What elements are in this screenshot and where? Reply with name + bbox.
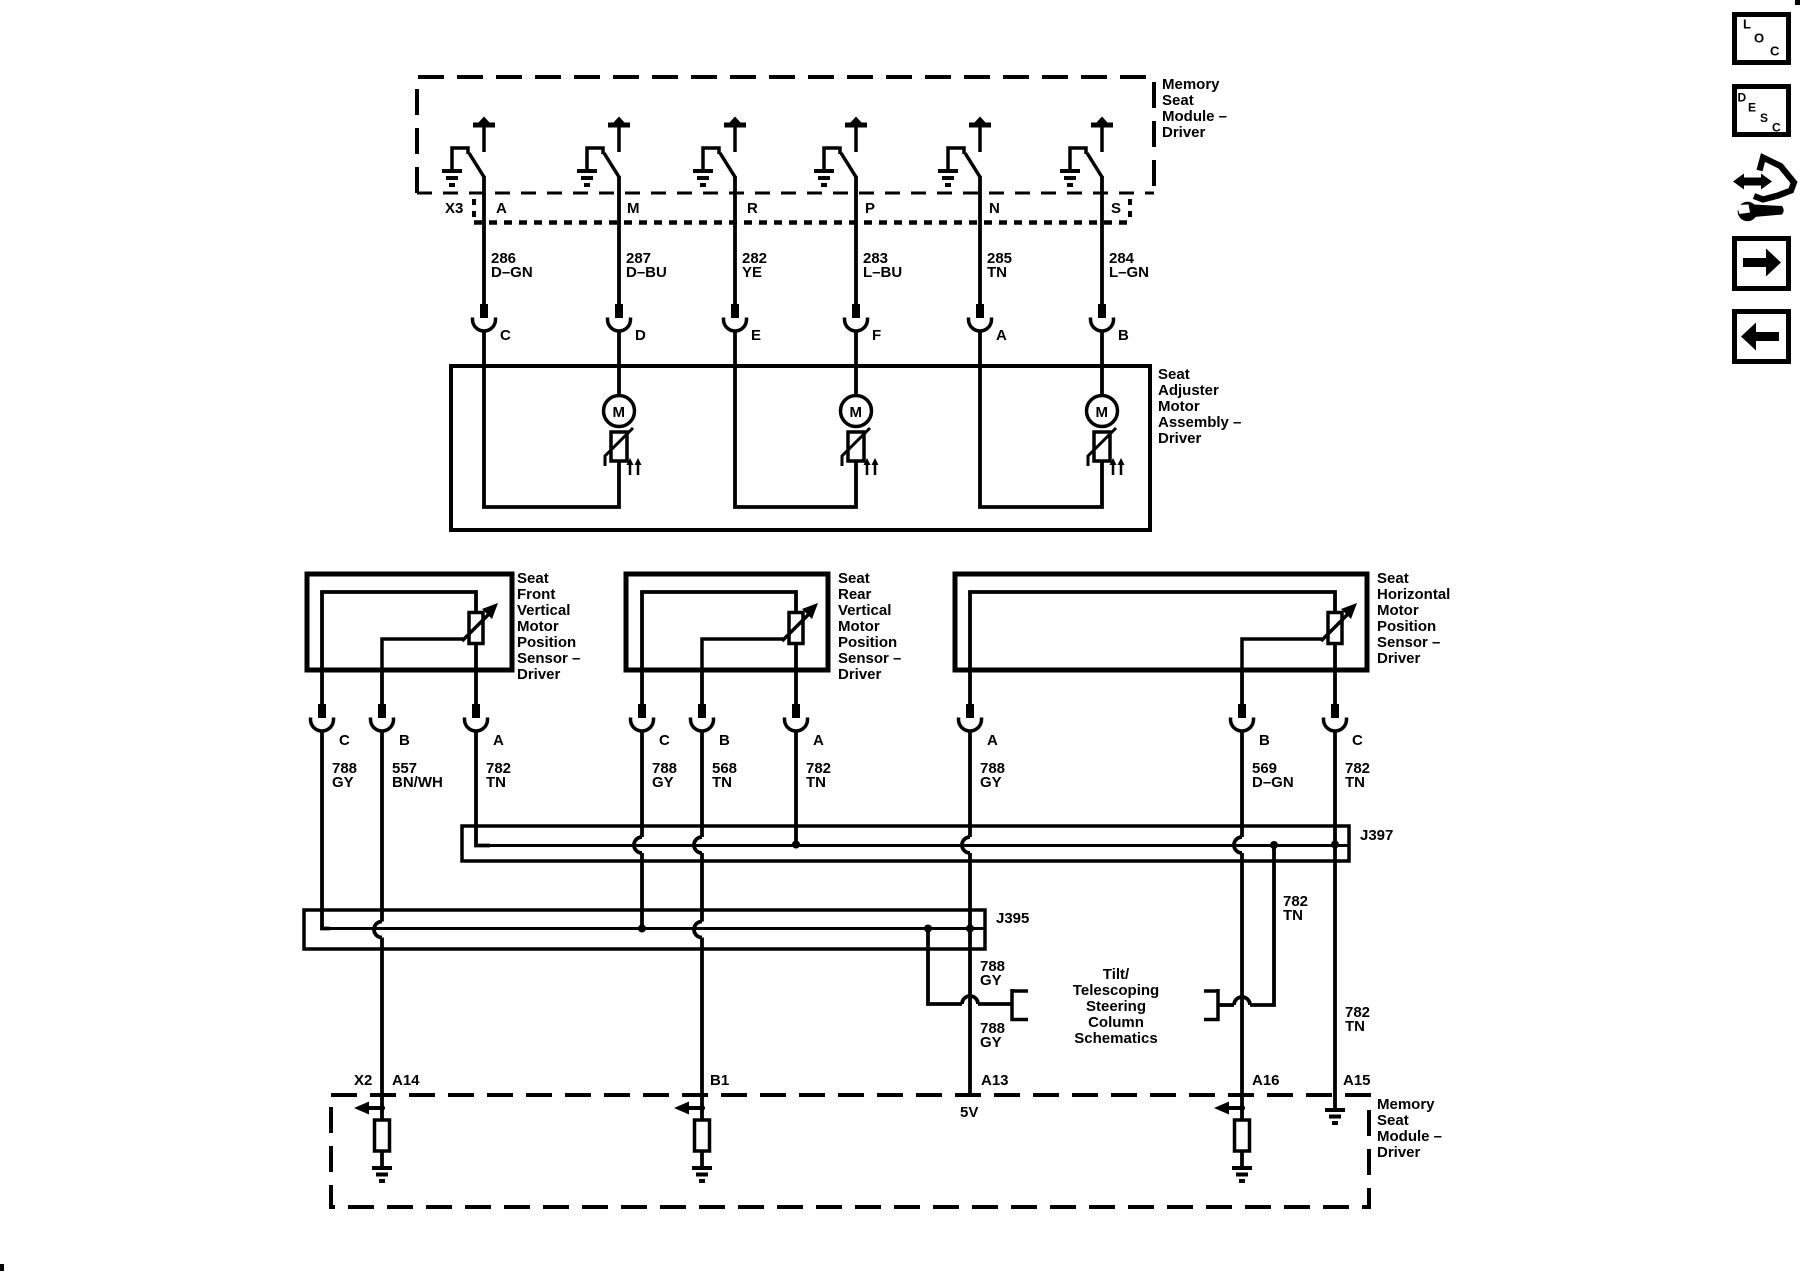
ground (module internal, A15)	[1325, 1108, 1345, 1125]
wire 568 TN (sensor2 B to module B1, hops J397 and J395)	[694, 731, 702, 1095]
icon: back button (left arrow)	[1735, 312, 1789, 362]
connector pin F (in-line connector)	[845, 304, 882, 366]
svg-text:GY: GY	[332, 774, 354, 791]
icon: next button (right arrow)	[1735, 239, 1789, 289]
svg-text:TN: TN	[486, 774, 506, 791]
svg-text:D: D	[635, 327, 646, 344]
svg-text:B: B	[1259, 732, 1270, 749]
module box: Seat Adjuster Motor Assembly - Driver	[451, 366, 1150, 530]
wire 285 TN (switch to motor assembly pin A)	[980, 176, 1012, 304]
svg-text:Driver: Driver	[1377, 650, 1421, 667]
svg-text:Schematics: Schematics	[1074, 1030, 1157, 1047]
svg-text:GY: GY	[980, 1034, 1002, 1051]
svg-text:Driver: Driver	[517, 666, 561, 683]
connector pin A (in-line connector)	[969, 304, 1008, 366]
svg-text:P: P	[865, 200, 875, 217]
resistor (module internal, B1)	[695, 1120, 710, 1151]
svg-text:A14: A14	[392, 1072, 420, 1089]
wire (sensor 1 supply, inside box)	[322, 592, 476, 670]
splice J397	[462, 826, 1349, 861]
svg-text:C: C	[1772, 121, 1781, 135]
resistor (module internal, A16)	[1235, 1120, 1250, 1151]
svg-text:Adjuster: Adjuster	[1158, 382, 1219, 399]
connector pin A (sensor in-line connector, wire 782)	[465, 704, 505, 749]
wire 286 D-GN (switch to motor assembly pin C)	[484, 176, 533, 304]
motor M2	[841, 396, 872, 427]
wire (motor 3 circuit inside assembly)	[980, 366, 1102, 507]
svg-text:A: A	[996, 327, 1007, 344]
connector pin A (sensor in-line connector, wire 788)	[959, 704, 999, 749]
switch S6 (memory seat switch)	[1070, 148, 1102, 177]
ground (module internal, B1)	[692, 1166, 712, 1183]
actuator (switch S5 pushbutton)	[969, 117, 991, 153]
svg-text:M: M	[1096, 404, 1109, 421]
svg-text:GY: GY	[652, 774, 674, 791]
svg-text:D–GN: D–GN	[491, 264, 533, 281]
potentiometer (sensor 3)	[1321, 603, 1357, 644]
wire 788 GY	[332, 760, 357, 791]
actuator (switch S4 pushbutton)	[845, 117, 867, 153]
label: 788 GY (above tap)	[980, 958, 1005, 989]
pin A13	[981, 1072, 1009, 1089]
label: Memory Seat Module - Driver (bottom)	[1377, 1096, 1442, 1161]
svg-text:C: C	[1352, 732, 1363, 749]
svg-text:C: C	[339, 732, 350, 749]
svg-text:J395: J395	[996, 910, 1029, 927]
svg-text:B1: B1	[710, 1072, 729, 1089]
wire 788 GY (sensor2 C, hops J397, to splice J395 dot)	[634, 731, 646, 933]
wire 569 D-GN (sensor3 B to module A16, hops J397)	[1234, 731, 1242, 1095]
svg-text:L: L	[1743, 17, 1751, 32]
svg-text:A: A	[496, 200, 507, 217]
label: connector X3	[445, 200, 463, 217]
wire (sensor 2 output, potentiometer to box bottom)	[794, 643, 798, 670]
connector pin E (in-line connector)	[724, 304, 762, 366]
svg-text:TN: TN	[1345, 1018, 1365, 1035]
wire (motor 2 circuit inside assembly)	[735, 366, 856, 507]
pin S (connector X3)	[1111, 200, 1121, 217]
svg-text:A15: A15	[1343, 1072, 1371, 1089]
svg-text:Column: Column	[1088, 1014, 1144, 1031]
motor M3	[1087, 396, 1118, 427]
connector pin C (sensor in-line connector, wire 788)	[311, 704, 351, 749]
wire (sensor lead C)	[320, 670, 324, 704]
connector pin A (sensor in-line connector, wire 782)	[785, 704, 825, 749]
svg-text:Driver: Driver	[1377, 1144, 1421, 1161]
pin A15	[1343, 1072, 1371, 1089]
connector X3 strip	[474, 199, 1130, 223]
svg-text:O: O	[1754, 31, 1764, 46]
wire (sensor lead C)	[1333, 670, 1337, 704]
connector pin C (sensor in-line connector, wire 788)	[631, 704, 671, 749]
wire (sensor lead A)	[968, 670, 972, 704]
svg-text:Module –: Module –	[1162, 108, 1227, 125]
wire (sensor lead A)	[474, 670, 478, 704]
svg-text:Driver: Driver	[1162, 124, 1206, 141]
connector pin C (sensor in-line connector, wire 782)	[1324, 704, 1364, 749]
label: J395	[996, 910, 1029, 927]
module box: Seat Horizontal Motor Position Sensor - Driver	[955, 574, 1367, 670]
wire 788 GY (tap from J395 to tilt/telescoping schematics)	[924, 925, 1012, 1005]
off-page connector (to tilt/telescoping steering column schematics, left)	[1011, 989, 1029, 1021]
svg-text:L–BU: L–BU	[863, 264, 902, 281]
svg-text:BN/WH: BN/WH	[392, 774, 443, 791]
actuator (switch S3 pushbutton)	[724, 117, 746, 153]
svg-text:Seat: Seat	[517, 570, 549, 587]
svg-text:C: C	[1770, 44, 1780, 59]
svg-text:GY: GY	[980, 774, 1002, 791]
label: connector X2	[354, 1072, 372, 1089]
label: 782 TN (tap wire)	[1283, 893, 1308, 924]
icon: vehicle view (double arrow, outline, wrench)	[1733, 158, 1794, 222]
wire (sensor lead C)	[640, 670, 644, 704]
connector pin B (sensor in-line connector, wire 569)	[1231, 704, 1271, 749]
wire 782 TN	[1345, 760, 1370, 791]
wire (A14 to pull-up resistor)	[380, 1095, 384, 1120]
label: Seat Adjuster Motor Assembly - Driver	[1158, 366, 1241, 447]
position sensor element (motor 3 variable resistor)	[1088, 428, 1116, 466]
splice J395	[304, 910, 985, 949]
wire 788 GY (sensor3 A, hops J397, J395 dot, to module A13 5V)	[962, 731, 974, 1095]
wire 282 YE (switch to motor assembly pin E)	[735, 176, 767, 304]
wire (sensor 3 output, potentiometer to box bottom)	[1333, 643, 1337, 670]
actuator (switch S2 pushbutton)	[608, 117, 630, 153]
svg-text:TN: TN	[1283, 907, 1303, 924]
ground (switch S4)	[814, 169, 834, 187]
resistor (module internal, A14)	[375, 1120, 390, 1151]
wire (A16 to pull-up resistor)	[1240, 1095, 1244, 1120]
signal arrow (into module at A14)	[354, 1102, 385, 1115]
svg-text:Motor: Motor	[838, 618, 880, 635]
icon: LOC button	[1735, 15, 1789, 63]
svg-text:D–BU: D–BU	[626, 264, 667, 281]
svg-text:S: S	[1111, 200, 1121, 217]
svg-text:TN: TN	[987, 264, 1007, 281]
ground (switch S2)	[577, 169, 597, 187]
svg-text:Seat: Seat	[1158, 366, 1190, 383]
svg-text:J397: J397	[1360, 827, 1393, 844]
svg-text:Vertical: Vertical	[838, 602, 891, 619]
svg-text:Position: Position	[517, 634, 576, 651]
ground (switch S6)	[1060, 169, 1080, 187]
svg-text:L–GN: L–GN	[1109, 264, 1149, 281]
wire 782 TN (tap from tilt schematics to J397)	[1218, 841, 1278, 1005]
mark (bottom-left edge)	[0, 1264, 4, 1271]
wire (sensor 3 supply, inside box)	[970, 592, 1335, 670]
svg-text:R: R	[747, 200, 758, 217]
wire 557 BN/WH (sensor1 B to module A14, hops J395)	[374, 731, 382, 1095]
svg-text:A: A	[813, 732, 824, 749]
wire (sensor 1 wiper, inside box)	[382, 639, 464, 670]
svg-text:B: B	[719, 732, 730, 749]
pin P (connector X3)	[865, 200, 875, 217]
wire (B1 to pull-up resistor)	[700, 1095, 704, 1120]
svg-text:S: S	[1760, 111, 1768, 125]
svg-text:B: B	[1118, 327, 1129, 344]
svg-text:Vertical: Vertical	[517, 602, 570, 619]
pin B1	[710, 1072, 729, 1089]
svg-text:E: E	[751, 327, 761, 344]
svg-text:Motor: Motor	[517, 618, 559, 635]
wire 283 L-BU (switch to motor assembly pin F)	[856, 176, 902, 304]
motor M1	[604, 396, 635, 427]
wire (resistor to ground, A14)	[380, 1151, 384, 1166]
wire 287 D-BU (switch to motor assembly pin D)	[619, 176, 667, 304]
svg-text:A13: A13	[981, 1072, 1009, 1089]
wire (sensor lead B)	[700, 670, 704, 704]
signal arrow (into module at B1)	[674, 1102, 705, 1115]
mark (top-right edge)	[1795, 0, 1800, 5]
label: J397	[1360, 827, 1393, 844]
wire 782 TN (sensor2 A to splice J397 dot)	[792, 731, 800, 849]
wire 788 GY (sensor1 C to splice J395)	[322, 731, 330, 929]
svg-text:GY: GY	[980, 972, 1002, 989]
svg-text:Front: Front	[517, 586, 555, 603]
svg-text:Seat: Seat	[838, 570, 870, 587]
arrows (motor 1 sensor direction)	[627, 458, 642, 475]
module box: Seat Front Vertical Motor Position Sensor - Driver	[307, 574, 512, 670]
icon: DESC button	[1735, 87, 1789, 135]
label: 782 TN (A15 wire)	[1345, 1004, 1370, 1035]
wire (resistor to ground, A16)	[1240, 1151, 1244, 1166]
svg-text:Position: Position	[838, 634, 897, 651]
label: Seat Rear Vertical Motor Position Sensor - Driver	[838, 570, 901, 683]
pin A (connector X3)	[496, 200, 507, 217]
svg-text:Module –: Module –	[1377, 1128, 1442, 1145]
svg-text:Tilt/: Tilt/	[1103, 966, 1130, 983]
svg-text:Seat: Seat	[1377, 1112, 1409, 1129]
wire 569 D-GN	[1252, 760, 1294, 791]
svg-text:Sensor –: Sensor –	[1377, 634, 1440, 651]
wire 788 GY	[652, 760, 677, 791]
svg-text:Memory: Memory	[1162, 76, 1220, 93]
potentiometer (sensor 2)	[782, 603, 818, 644]
svg-text:Horizontal: Horizontal	[1377, 586, 1450, 603]
svg-text:TN: TN	[712, 774, 732, 791]
svg-text:Sensor –: Sensor –	[838, 650, 901, 667]
connector pin D (in-line connector)	[608, 304, 647, 366]
ground (module internal, A14)	[372, 1166, 392, 1183]
svg-text:M: M	[627, 200, 640, 217]
wire 788 GY	[980, 760, 1005, 791]
potentiometer (sensor 1)	[462, 603, 498, 644]
svg-text:X3: X3	[445, 200, 463, 217]
switch S1 (memory seat switch)	[452, 148, 484, 177]
switch S2 (memory seat switch)	[587, 148, 619, 177]
wire 782 TN	[806, 760, 831, 791]
signal arrow (into module at A16)	[1214, 1102, 1245, 1115]
svg-text:TN: TN	[806, 774, 826, 791]
wire (sensor lead B)	[380, 670, 384, 704]
svg-text:Driver: Driver	[838, 666, 882, 683]
connector pin C (in-line connector)	[473, 304, 512, 366]
svg-text:TN: TN	[1345, 774, 1365, 791]
wire (sensor lead A)	[794, 670, 798, 704]
svg-text:M: M	[850, 404, 863, 421]
wire 782 TN	[486, 760, 511, 791]
switch S4 (memory seat switch)	[824, 148, 856, 177]
label: Seat Horizontal Motor Position Sensor - Driver	[1377, 570, 1450, 667]
switch S5 (memory seat switch)	[948, 148, 980, 177]
wire 782 TN (sensor1 A to splice J397)	[476, 731, 490, 846]
label: 5V (A13)	[960, 1104, 978, 1121]
svg-text:B: B	[399, 732, 410, 749]
svg-text:Motor: Motor	[1158, 398, 1200, 415]
wire (A15 to ground)	[1333, 1095, 1337, 1108]
svg-text:A: A	[987, 732, 998, 749]
svg-text:D–GN: D–GN	[1252, 774, 1294, 791]
ground (switch S3)	[693, 169, 713, 187]
svg-text:Driver: Driver	[1158, 430, 1202, 447]
wire 284 L-GN (switch to motor assembly pin B)	[1102, 176, 1149, 304]
label: Tilt/Telescoping Steering Column Schematics	[1073, 966, 1159, 1047]
module box: Seat Rear Vertical Motor Position Sensor - Driver	[626, 574, 828, 670]
module box: Memory Seat Module - Driver (top, dashed)	[417, 77, 1154, 193]
wire (sensor 2 supply, inside box)	[642, 592, 796, 670]
ground (switch S1)	[442, 169, 462, 187]
svg-text:A: A	[493, 732, 504, 749]
connector pin B (sensor in-line connector, wire 568)	[691, 704, 731, 749]
actuator (switch S6 pushbutton)	[1091, 117, 1113, 153]
pin M (connector X3)	[627, 200, 640, 217]
svg-text:YE: YE	[742, 264, 762, 281]
actuator (switch S1 pushbutton)	[473, 117, 495, 153]
wire (sensor 1 output, potentiometer to box bottom)	[474, 643, 478, 670]
wire 782 TN (sensor3 C through J397 dot to module A15)	[1331, 731, 1339, 1095]
off-page connector (from tilt/telescoping steering column schematics, right)	[1204, 989, 1220, 1021]
svg-text:F: F	[872, 327, 881, 344]
svg-text:E: E	[1748, 101, 1756, 115]
svg-text:Telescoping: Telescoping	[1073, 982, 1159, 999]
pin R (connector X3)	[747, 200, 758, 217]
svg-text:X2: X2	[354, 1072, 372, 1089]
svg-text:N: N	[989, 200, 1000, 217]
wire (motor 1 circuit inside assembly)	[484, 366, 619, 507]
pin A16	[1252, 1072, 1280, 1089]
wire (sensor 2 wiper, inside box)	[702, 639, 784, 670]
svg-text:C: C	[500, 327, 511, 344]
arrows (motor 2 sensor direction)	[864, 458, 879, 475]
svg-text:Seat: Seat	[1162, 92, 1194, 109]
position sensor element (motor 1 variable resistor)	[605, 428, 633, 466]
switch S3 (memory seat switch)	[703, 148, 735, 177]
label: Memory Seat Module - Driver (top)	[1162, 76, 1227, 141]
connector pin B (sensor in-line connector, wire 557)	[371, 704, 411, 749]
ground (module internal, A16)	[1232, 1166, 1252, 1183]
wire (sensor lead B)	[1240, 670, 1244, 704]
svg-text:D: D	[1738, 91, 1747, 105]
wire (sensor 3 wiper, inside box)	[1242, 639, 1323, 670]
connector pin B (in-line connector)	[1091, 304, 1130, 366]
wire 568 TN	[712, 760, 737, 791]
svg-text:C: C	[659, 732, 670, 749]
pin A14	[392, 1072, 420, 1089]
svg-text:Rear: Rear	[838, 586, 872, 603]
wire (resistor to ground, B1)	[700, 1151, 704, 1166]
position sensor element (motor 2 variable resistor)	[842, 428, 870, 466]
label: 788 GY (below tap)	[980, 1020, 1005, 1051]
svg-text:Position: Position	[1377, 618, 1436, 635]
ground (switch S5)	[938, 169, 958, 187]
module box: Memory Seat Module - Driver (bottom, dashed)	[331, 1095, 1369, 1207]
wire 557 BN/WH	[392, 760, 443, 791]
svg-text:Seat: Seat	[1377, 570, 1409, 587]
svg-text:Steering: Steering	[1086, 998, 1146, 1015]
svg-text:Assembly –: Assembly –	[1158, 414, 1241, 431]
svg-text:A16: A16	[1252, 1072, 1280, 1089]
svg-text:Memory: Memory	[1377, 1096, 1435, 1113]
pin N (connector X3)	[989, 200, 1000, 217]
svg-text:M: M	[613, 404, 626, 421]
svg-text:5V: 5V	[960, 1104, 978, 1121]
arrows (motor 3 sensor direction)	[1110, 458, 1125, 475]
svg-text:Motor: Motor	[1377, 602, 1419, 619]
label: Seat Front Vertical Motor Position Sensor - Driver	[517, 570, 580, 683]
svg-text:Sensor –: Sensor –	[517, 650, 580, 667]
